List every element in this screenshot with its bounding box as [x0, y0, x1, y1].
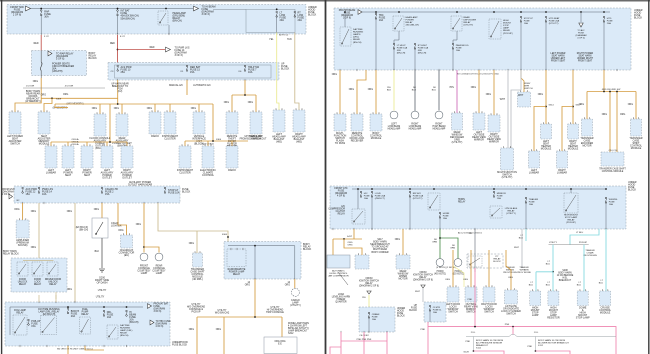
svg-text:CRANK: CRANK	[372, 313, 380, 316]
svg-text:CLUSTER: CLUSTER	[164, 138, 176, 141]
svg-text:DAYTIME: DAYTIME	[120, 324, 130, 327]
svg-text:(HID): (HID)	[276, 141, 282, 144]
left door lock window switch	[447, 287, 459, 302]
svg-text:3 OF 6): 3 OF 6)	[175, 54, 183, 57]
svg-text:MODULE: MODULE	[600, 312, 611, 315]
svg-text:RELAY: RELAY	[81, 313, 89, 316]
svg-text:BLOCK: BLOCK	[182, 191, 191, 194]
wire tan L3 to L4	[74, 203, 76, 302]
wire htd seat down	[545, 22, 547, 71]
wire to ac fuse	[580, 12, 582, 22]
wire dome bus	[197, 316, 282, 318]
svg-text:ORG: ORG	[368, 89, 373, 91]
svg-text:CLUSTER: CLUSTER	[179, 172, 191, 175]
svg-text:20A: 20A	[280, 19, 285, 22]
power seats circuit breaker box	[32, 51, 87, 76]
svg-text:FOG LAMP: FOG LAMP	[14, 309, 26, 312]
svg-text:AIR COMPRESSOR: AIR COMPRESSOR	[328, 275, 348, 278]
svg-text:ORG: ORG	[395, 239, 400, 241]
svg-text:AUTOMATIC: AUTOMATIC	[332, 270, 345, 273]
svg-text:(DIAGRAM: (DIAGRAM	[576, 34, 587, 37]
right headlamp ballast	[293, 110, 305, 132]
svg-text:(UTILITY): (UTILITY)	[413, 198, 423, 200]
svg-text:S309: S309	[56, 99, 62, 101]
svg-text:BREAKOUT: BREAKOUT	[559, 279, 572, 282]
svg-text:BLOCK: BLOCK	[634, 17, 643, 20]
wire horn 2	[440, 238, 458, 259]
svg-text:(UTILITY): (UTILITY)	[549, 23, 559, 25]
svg-text:BODY HARN: BODY HARN	[3, 250, 17, 253]
svg-text:B/PILLAR (UTILITY): B/PILLAR (UTILITY)	[288, 327, 309, 330]
svg-text:BODY HARN 10 CM FROM: BODY HARN 10 CM FROM	[538, 339, 565, 342]
svg-text:BLOCK: BLOCK	[303, 248, 312, 251]
node S408	[552, 271, 554, 273]
svg-text:(BN-CH): (BN-CH)	[353, 42, 362, 44]
wire wht clstr	[422, 288, 424, 302]
svg-text:15A: 15A	[31, 325, 36, 328]
svg-text:K10 C3 A10: K10 C3 A10	[202, 143, 214, 146]
node s306	[227, 236, 229, 238]
svg-text:SEAT: SEAT	[65, 174, 72, 177]
svg-text:BLOCK: BLOCK	[409, 310, 417, 312]
amplifier premium sound	[16, 220, 29, 238]
wire pnk 1	[340, 332, 342, 354]
wire cyan hmsl 2	[552, 272, 554, 291]
svg-text:S314: S314	[549, 105, 555, 107]
node bus4	[109, 141, 111, 143]
svg-text:PNK: PNK	[505, 324, 510, 326]
cigar lighter	[92, 218, 108, 238]
wire trunk S300	[212, 104, 214, 141]
right lumbar R	[557, 151, 568, 168]
bus wire L4	[10, 306, 143, 308]
arrow R1 feed	[358, 10, 362, 15]
svg-text:HEADLAMP: HEADLAMP	[406, 16, 419, 19]
wire stop turn stub	[521, 70, 524, 92]
svg-text:ORG: ORG	[508, 277, 513, 279]
svg-text:MIRROR: MIRROR	[489, 141, 499, 144]
svg-text:STOP LAMP: STOP LAMP	[576, 317, 590, 320]
page border left	[1, 0, 3, 354]
svg-text:MODULE: MODULE	[568, 148, 579, 151]
node S300	[212, 140, 214, 142]
horn 2	[454, 259, 462, 267]
fuse LT HDLP	[393, 43, 395, 49]
svg-text:FUSE 10A: FUSE 10A	[397, 47, 408, 50]
svg-text:BODY CORNER: BODY CORNER	[371, 252, 388, 254]
svg-text:4 OF 6): 4 OF 6)	[577, 38, 585, 40]
svg-text:ORG: ORG	[471, 87, 476, 89]
bus wire L1	[31, 8, 194, 10]
svg-text:SEAT HARN: SEAT HARN	[552, 55, 565, 58]
svg-text:PROV B/ONE: PROV B/ONE	[517, 272, 531, 274]
arrow ign 3	[421, 285, 425, 288]
wire dls feed1	[452, 250, 454, 287]
svg-text:RELAY: RELAY	[233, 273, 241, 276]
UP fuse block L2	[108, 63, 279, 81]
svg-text:ORG: ORG	[224, 102, 229, 104]
driver door unlock relay	[47, 262, 58, 276]
right door lock window switch	[483, 287, 495, 302]
svg-text:RELAY: RELAY	[406, 21, 414, 24]
fuse HORN 15A	[439, 212, 441, 218]
svg-text:RED: RED	[110, 43, 115, 45]
svg-text:LAMP: LAMP	[532, 314, 539, 317]
svg-text:ORG: ORG	[245, 285, 250, 287]
svg-text:MANUAL A/C: MANUAL A/C	[169, 84, 183, 87]
svg-text:(UTILITY): (UTILITY)	[464, 25, 474, 27]
wire L4 in2	[55, 295, 57, 302]
svg-text:BLOCK: BLOCK	[308, 14, 317, 17]
svg-text:50A (BN-CH): 50A (BN-CH)	[121, 17, 135, 20]
svg-text:B2 F2 C2: B2 F2 C2	[279, 35, 289, 37]
svg-text:BLU: BLU	[577, 285, 582, 287]
wire alc in	[353, 229, 355, 239]
svg-text:RELAY: RELAY	[120, 332, 128, 335]
rear auxiliary power outlet	[116, 114, 128, 136]
lpm glass relay	[490, 206, 502, 218]
headlamp power relay	[393, 16, 404, 31]
rear defogger relay	[451, 16, 462, 31]
liftgate endgate lock cylinder switch	[505, 290, 518, 304]
wire dome d1	[196, 317, 198, 354]
wire courtesy trunk	[143, 203, 145, 253]
wire clstr down	[429, 311, 431, 323]
svg-text:ORG: ORG	[285, 285, 290, 287]
wire drl relay up	[344, 12, 346, 27]
load leveling pointer	[338, 272, 348, 285]
drop line breakout 1	[473, 337, 475, 352]
wire horn 1	[439, 229, 441, 259]
wire bus2	[55, 103, 213, 105]
svg-text:RELAY: RELAY	[49, 283, 57, 286]
right low beam headlamp	[411, 111, 419, 119]
wire L4 left drop	[9, 307, 11, 335]
svg-text:S306: S306	[222, 234, 228, 236]
wire dlc feed	[118, 203, 127, 235]
wire alc bus	[333, 238, 362, 240]
node g128	[473, 350, 475, 352]
floor console auxiliary power outlet	[94, 114, 106, 136]
fuse BODY8	[67, 308, 69, 314]
wire tan ballast	[295, 33, 299, 111]
wire drop U7	[198, 104, 200, 112]
svg-text:RELAY: RELAY	[464, 21, 472, 24]
svg-text:S417: S417	[347, 236, 353, 238]
fog lamp relay	[13, 315, 27, 335]
ac compressor clutch relay	[352, 209, 365, 224]
svg-text:POWER LAMP: POWER LAMP	[229, 271, 245, 274]
door unlock relay	[17, 262, 28, 276]
svg-text:RELAY: RELAY	[507, 210, 515, 213]
instrument cluster U6	[164, 112, 176, 134]
node L4 b	[103, 306, 105, 308]
svg-text:20A: 20A	[298, 19, 303, 22]
connector ticks R1	[339, 69, 341, 71]
wire pnk clstr	[427, 322, 429, 354]
svg-text:ORG: ORG	[620, 114, 625, 116]
svg-text:CONTROL: CONTROL	[202, 174, 215, 177]
svg-text:UTILITY: UTILITY	[549, 242, 558, 244]
svg-text:BLOWER MOTOR BREAKOUT: BLOWER MOTOR BREAKOUT	[538, 342, 569, 345]
svg-text:BLOCK: BLOCK	[89, 57, 98, 60]
svg-text:SWITCH: SWITCH	[524, 88, 533, 90]
connector ticks L3	[22, 202, 24, 204]
wire horn down	[439, 218, 441, 230]
fuse MIRROR	[493, 191, 495, 197]
svg-text:SWITCH: SWITCH	[466, 311, 476, 314]
wire cyan dome	[583, 245, 585, 291]
svg-text:HEADLAMP: HEADLAMP	[409, 128, 422, 131]
svg-text:BODY HARN: BODY HARN	[373, 241, 387, 244]
svg-text:FUSE 20A: FUSE 20A	[549, 20, 560, 23]
svg-text:ORG: ORG	[147, 108, 152, 110]
svg-text:PNK: PNK	[528, 346, 533, 348]
node tc2b	[616, 91, 618, 93]
wire yellow ballast	[277, 33, 279, 111]
svg-text:10A: 10A	[248, 71, 253, 74]
node r2 horn	[433, 188, 435, 190]
node r2 hmsl	[570, 188, 572, 190]
svg-text:30A: 30A	[44, 16, 49, 19]
stop turn switch box	[518, 92, 531, 107]
svg-text:FUSE 20A: FUSE 20A	[375, 195, 386, 198]
svg-text:(DIAGRAM 3 OF 6): (DIAGRAM 3 OF 6)	[413, 279, 433, 282]
svg-text:RELAY: RELAY	[567, 219, 575, 222]
remote control door lock receiver	[351, 114, 363, 131]
fuse HDLP SW 7	[244, 65, 246, 71]
rear window defogger grid	[452, 113, 463, 130]
wire stop lp down	[520, 22, 522, 71]
wire left low beam	[393, 70, 395, 111]
svg-text:LOW BEAM: LOW BEAM	[409, 125, 421, 128]
page border top	[0, 0, 650, 2]
svg-text:ORG: ORG	[94, 209, 99, 211]
svg-text:(PICKUP): (PICKUP)	[503, 33, 513, 35]
svg-text:ORG: ORG	[486, 94, 491, 96]
svg-text:FROM BCM BREAKOUT: FROM BCM BREAKOUT	[240, 138, 267, 141]
arrow front fuse	[148, 304, 152, 309]
wire right power drop	[86, 142, 88, 146]
daytime running lamp relay 1	[41, 316, 57, 335]
pt relay block dashes	[467, 254, 503, 268]
wire tc drop1	[586, 92, 588, 120]
svg-text:3 OF 6): 3 OF 6)	[343, 17, 351, 20]
radio remote power lamp relay	[227, 249, 246, 267]
wire mf switch	[339, 70, 341, 114]
svg-text:QUARTER: QUARTER	[335, 301, 347, 304]
node tc2	[609, 91, 611, 93]
svg-text:PROV/SIGNS: PROV/SIGNS	[583, 255, 597, 257]
svg-text:15A: 15A	[190, 71, 195, 74]
high mount stop lamp relay R1	[489, 19, 501, 39]
svg-text:TRIP CONSOLE: TRIP CONSOLE	[266, 311, 284, 314]
svg-text:(DIAGRAM: (DIAGRAM	[156, 323, 168, 326]
svg-text:CONTROL MODULE: CONTROL MODULE	[602, 171, 624, 173]
svg-text:ORG: ORG	[136, 224, 141, 226]
svg-text:ORG: ORG	[445, 279, 450, 281]
svg-text:10A: 10A	[524, 22, 528, 25]
svg-text:10A: 10A	[364, 197, 368, 200]
svg-text:ORG: ORG	[31, 247, 36, 249]
split line door	[23, 87, 105, 89]
svg-text:LUMBAR: LUMBAR	[529, 172, 539, 175]
svg-text:(UTILITY): (UTILITY)	[452, 141, 463, 144]
svg-text:PROVISIONS: PROVISIONS	[503, 272, 517, 274]
svg-text:WHT: WHT	[500, 99, 506, 101]
wire b1 down	[474, 229, 476, 272]
svg-text:TO GROUND AT: TO GROUND AT	[371, 246, 389, 249]
node pnk bus a	[474, 326, 476, 328]
wire INT BAT down	[117, 15, 119, 34]
daytime running lamp relay 2	[107, 325, 118, 339]
left auxiliary power outlet	[101, 146, 113, 168]
svg-text:1 DL: 1 DL	[534, 332, 539, 334]
circuit breaker symbol	[40, 62, 42, 71]
svg-text:BLU: BLU	[546, 285, 551, 287]
wire cyan cruise	[605, 229, 607, 291]
left seat heater module	[541, 124, 552, 139]
svg-text:RELAY: RELAY	[493, 258, 501, 261]
fuse STOP LP	[164, 187, 166, 193]
right auxiliary power outlet	[121, 146, 133, 168]
wire drop D7	[207, 141, 209, 146]
svg-text:BLU: BLU	[529, 285, 534, 287]
right high beam headlamp	[435, 111, 443, 119]
node r1 htd	[603, 11, 605, 13]
svg-text:LAMP: LAMP	[156, 272, 163, 275]
svg-text:SWITCH: SWITCH	[448, 311, 458, 314]
wire hdlp sw down	[244, 80, 246, 95]
node bus L1 a	[40, 8, 42, 10]
wire drop U6	[169, 104, 171, 112]
L2 inner frame	[115, 65, 272, 78]
connector ticks crank	[340, 331, 342, 333]
node r2 c	[409, 188, 411, 190]
wire seat heater R	[572, 70, 574, 124]
wire manual ac	[186, 80, 188, 95]
wire bus ac	[232, 94, 256, 96]
svg-text:(PICKUP): (PICKUP)	[566, 222, 576, 224]
svg-text:WHT: WHT	[514, 247, 520, 249]
svg-text:RADIO: RADIO	[228, 169, 236, 172]
svg-text:(BN-CH): (BN-CH)	[129, 321, 138, 324]
node bus2 a	[117, 103, 119, 105]
wire brb bus	[228, 245, 295, 247]
node bus L1 c	[165, 8, 167, 10]
svg-text:TRAILER: TRAILER	[519, 266, 529, 269]
svg-text:(HID): (HID)	[296, 141, 302, 144]
svg-text:A/C PRESSURE SENSOR: A/C PRESSURE SENSOR	[476, 342, 503, 345]
svg-text:4 DOOR: 4 DOOR	[65, 86, 74, 88]
svg-text:RADIO: RADIO	[151, 135, 159, 138]
svg-text:ORG: ORG	[118, 230, 123, 232]
svg-text:LEVELING HARN: LEVELING HARN	[332, 296, 351, 299]
fuse WSW	[605, 197, 607, 203]
svg-text:BLU: BLU	[412, 90, 417, 92]
wire trailer cyan	[525, 229, 527, 241]
svg-text:GRN: GRN	[450, 248, 455, 250]
node brb a	[254, 245, 256, 247]
wire tc drop3	[635, 92, 637, 120]
bus wire R2	[352, 188, 606, 190]
wire pnk h	[341, 340, 387, 342]
dome and high mount stop lamp	[577, 291, 588, 306]
svg-text:10A: 10A	[107, 316, 112, 319]
svg-text:(BN-CH): (BN-CH)	[120, 335, 129, 337]
wire rt hdlp down	[414, 49, 416, 71]
front console courtesy lamp	[140, 253, 148, 261]
instrument cluster D6	[179, 146, 191, 168]
wire cigar feed	[101, 203, 103, 218]
node r2 a	[357, 188, 359, 190]
svg-text:MODULE: MODULE	[371, 137, 382, 140]
svg-text:RESISTOR: RESISTOR	[547, 317, 560, 320]
connector ticks L2	[117, 79, 119, 81]
svg-text:ORG: ORG	[191, 108, 196, 110]
wire dls angle	[453, 266, 464, 287]
cruise control module	[600, 291, 611, 306]
svg-text:10A: 10A	[609, 203, 613, 206]
wire htd down	[603, 22, 605, 71]
svg-text:BLOCK: BLOCK	[628, 189, 637, 192]
wire hmsl up	[570, 189, 572, 193]
fuse PAS DEFOG	[452, 43, 454, 49]
svg-text:RELAY: RELAY	[503, 29, 511, 32]
svg-text:BREAKOUT: BREAKOUT	[476, 344, 489, 347]
wire bus S309	[41, 97, 118, 99]
node g129	[535, 350, 537, 352]
ground G200	[99, 269, 105, 272]
svg-text:(UTILITY): (UTILITY)	[502, 176, 513, 179]
wire bcm	[375, 70, 377, 114]
svg-text:HEADLAMP: HEADLAMP	[388, 128, 401, 131]
page border right	[648, 0, 650, 354]
svg-text:LAMP: LAMP	[503, 27, 509, 30]
horn 1	[436, 259, 444, 267]
svg-text:LUMBAR: LUMBAR	[557, 172, 567, 175]
svg-text:LT BLU: LT BLU	[576, 232, 584, 234]
svg-text:ORG: ORG	[348, 245, 353, 247]
connector ticks L1	[40, 33, 42, 35]
svg-text:UTILITY: UTILITY	[98, 290, 107, 292]
wire drop U5	[154, 104, 156, 112]
wire cyan hmsl bus	[536, 271, 553, 273]
fuse CLSTR	[429, 305, 431, 311]
node LT LOW	[276, 8, 278, 10]
svg-text:15A: 15A	[497, 197, 501, 200]
svg-text:LAMP (DRL) RELAY: LAMP (DRL) RELAY	[39, 311, 60, 314]
svg-text:(EU): (EU)	[124, 254, 129, 257]
svg-text:MIRROR: MIRROR	[474, 139, 484, 142]
wire hp relay mid	[394, 31, 399, 44]
radio D8	[226, 146, 238, 168]
wire RED to pwr lks	[118, 49, 166, 51]
node S317	[572, 106, 574, 108]
multifunction switch utility	[501, 148, 514, 170]
left headlamp ballast	[273, 110, 285, 132]
svg-text:10A: 10A	[372, 318, 376, 321]
svg-text:MODULE: MODULE	[631, 147, 642, 150]
electronic climate control	[202, 146, 214, 168]
svg-text:RELAY: RELAY	[365, 282, 373, 285]
svg-text:1 DOOR: 1 DOOR	[26, 86, 35, 88]
wire pnk g128	[474, 351, 505, 354]
wire cyan hmsl 1	[535, 272, 537, 291]
svg-text:ORG: ORG	[114, 108, 119, 110]
node r1 htdseat	[545, 11, 547, 13]
left low beam headlamp	[390, 111, 398, 119]
